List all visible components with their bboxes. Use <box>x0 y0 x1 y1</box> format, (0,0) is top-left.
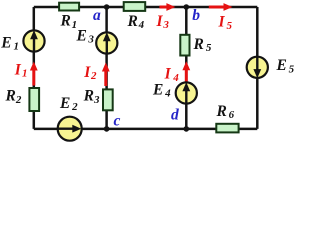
svg-text:a: a <box>93 7 101 24</box>
svg-text:c: c <box>114 113 121 130</box>
resistor R6 <box>216 124 238 133</box>
source E4 <box>176 82 197 103</box>
resistor R3 <box>103 89 113 110</box>
node b junction dot <box>184 4 190 10</box>
current arrow I1 <box>30 62 38 86</box>
wire middle branch a-c <box>105 7 108 129</box>
source E3 <box>96 32 117 53</box>
wire middle branch b-d <box>185 7 188 129</box>
source E5 (arrow down) <box>247 57 268 78</box>
current arrow I3 <box>159 3 175 11</box>
current arrow I4 <box>182 61 190 82</box>
wire top (node a-b top rail) <box>34 6 257 9</box>
current arrow I5 <box>209 3 233 11</box>
wire left branch <box>33 7 36 129</box>
node a junction dot <box>104 4 110 10</box>
node d junction dot <box>184 126 190 132</box>
resistor R2 <box>29 88 39 111</box>
wire bottom (node c-d bottom rail) <box>34 128 257 131</box>
node c junction dot <box>104 126 110 132</box>
source E1 <box>23 30 44 51</box>
svg-text:d: d <box>171 106 179 123</box>
resistor R4 <box>124 2 146 11</box>
resistor R1 <box>59 3 79 11</box>
source E2 (arrow right) <box>58 117 82 141</box>
current arrow I2 <box>102 63 110 87</box>
resistor R5 <box>180 35 189 56</box>
svg-text:b: b <box>192 7 200 24</box>
wire right branch <box>256 7 259 129</box>
